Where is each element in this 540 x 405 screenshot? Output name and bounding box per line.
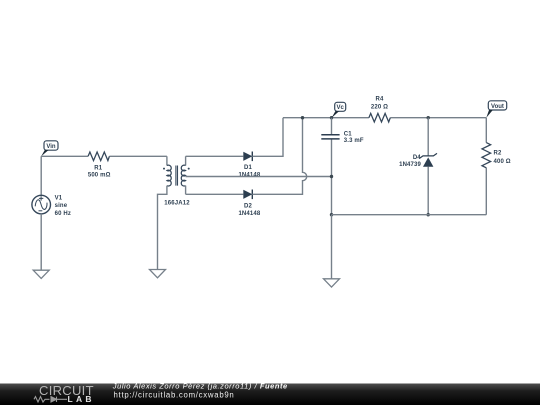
wire secondary top to D1 [186,155,244,157]
top bus wire [283,117,486,119]
transformer T1 primary [158,156,172,269]
svg-text:1N4148: 1N4148 [238,211,260,217]
svg-text:LAB: LAB [68,394,95,404]
svg-text:V1: V1 [55,195,63,201]
ground (output common) [324,279,340,287]
svg-text:Vout: Vout [491,104,504,110]
wire Vin node to R1 to transformer primary top [41,155,167,157]
junction dot C1/bottom bus [330,213,333,216]
diode D1 [243,152,252,162]
wire secondary center tap [186,176,332,178]
wire secondary bottom to D2 [186,193,244,195]
transformer T1 core [176,166,178,186]
capacitor C1 [321,135,339,139]
svg-text:Julio Alexis Zorro Pérez (ja.z: Julio Alexis Zorro Pérez (ja.zorro11) / … [112,381,288,390]
ground (transformer primary) [150,270,166,278]
voltage source V1 [32,195,51,214]
zener diode D4 branch wires [427,118,429,215]
svg-text:Vc: Vc [337,105,345,111]
zener diode D4 [419,153,437,166]
svg-text:D1: D1 [244,165,252,171]
CircuitLab logo squiggle (resistor + diode) [34,397,67,402]
svg-text:D4: D4 [413,155,421,161]
svg-text:R4: R4 [376,96,384,102]
svg-text:166JA12: 166JA12 [164,200,190,206]
svg-text:220 Ω: 220 Ω [371,104,388,110]
resistor R1 [88,152,109,161]
svg-text:Vin: Vin [46,144,56,150]
svg-text:C1: C1 [344,132,352,138]
svg-text:R1: R1 [94,165,102,171]
footer bar [0,384,540,405]
junction dot D4/bottom bus [427,213,430,216]
svg-text:500 mΩ: 500 mΩ [88,173,111,179]
wire D1 to top bus riser [252,118,283,157]
wire C1 to ground [331,215,333,279]
svg-text:3.3 mF: 3.3 mF [344,138,364,144]
node label Vout [486,101,506,118]
svg-text:400 Ω: 400 Ω [494,159,511,165]
wire V1 top [40,156,42,195]
resistor R4 [369,113,390,122]
junction dot D2/top bus [301,116,304,119]
junction dot D4/top bus [427,116,430,119]
wire V1 bottom [40,214,42,270]
diode D2 [243,190,252,200]
junction dot C1/top bus [330,116,333,119]
svg-text:sine: sine [55,203,68,209]
capacitor C1 branch wires [331,118,333,215]
wire D2 riser with hop over center tap [252,118,306,195]
svg-text:R2: R2 [494,150,502,156]
svg-text:1N4739: 1N4739 [399,162,421,168]
ground (V1) [33,270,49,278]
svg-text:D2: D2 [244,204,252,210]
svg-text:http://circuitlab.com/cxwab9n: http://circuitlab.com/cxwab9n [114,391,235,400]
resistor R2 [482,143,491,168]
svg-text:60 Hz: 60 Hz [55,211,71,217]
junction dot center tap/C1 [330,175,333,178]
svg-text:1N4148: 1N4148 [238,173,260,179]
node label Vc [332,102,346,117]
node label Vin [41,141,58,157]
bottom bus wire [332,214,487,216]
transformer T1 secondary [181,156,189,194]
wire R2 branch [485,118,487,215]
